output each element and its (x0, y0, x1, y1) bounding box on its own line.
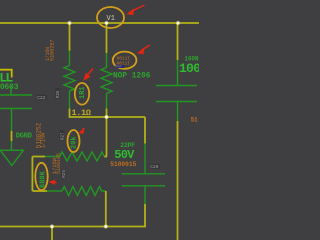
resistor R26 1.1ohm zigzag (64, 66, 75, 91)
svg-text:1R1: 1R1 (79, 86, 87, 99)
resistor R27 20k horizontal: left lead (32, 156, 45, 158)
capacitor C22 bottom plate (0, 108, 32, 110)
wire to ground (11, 109, 13, 132)
capacitor C20 stem from mid wire (144, 117, 146, 144)
wire (177, 102, 179, 122)
svg-text:C22: C22 (37, 95, 45, 101)
wire (106, 94, 108, 109)
pin stub from LL part (10, 86, 12, 95)
junction at top wire right (176, 21, 180, 25)
wire (144, 204, 146, 227)
capacitor C21 bottom plate (156, 101, 197, 103)
designator C22 gray (37, 95, 47, 100)
capacitor C21 top plate (156, 85, 197, 87)
wire stub below bottom wire (51, 227, 53, 240)
annotation arrow 1R1 (83, 69, 93, 81)
resistor R25 zigzag (62, 187, 102, 196)
designator R26 vertical gray (56, 88, 62, 99)
wire (177, 60, 179, 86)
wire vertical below junction (106, 117, 108, 157)
svg-text:DGND: DGND (16, 132, 32, 140)
wire vertical down to bottom (105, 191, 107, 227)
svg-text:NOP 1206: NOP 1206 (113, 72, 151, 80)
wire (144, 144, 146, 174)
capacitor C20 top plate (122, 173, 166, 175)
designator R25 vertical gray (61, 170, 67, 179)
junction at top wire middle (104, 21, 108, 25)
svg-text:NOP: NOP (116, 66, 122, 70)
svg-text:20k: 20k (71, 136, 79, 149)
wire (144, 186, 146, 204)
tiny blue selection box under NOP ellipse (116, 65, 125, 68)
junction at top wire left (67, 21, 71, 25)
svg-text:R27: R27 (61, 132, 65, 140)
annotation ellipse 20k (68, 130, 80, 152)
junction at bottom wire left (50, 224, 54, 228)
LL part yellow body outline corner (0, 70, 12, 78)
junction at bottom wire right (104, 224, 108, 228)
svg-text:680K: 680K (40, 170, 48, 188)
capacitor C22 top plate (0, 94, 32, 96)
wire vertical left connector (31, 157, 33, 192)
annotation ellipse V1 (97, 7, 124, 28)
svg-text:R26: R26 (57, 90, 61, 98)
svg-text:V1: V1 (107, 15, 115, 23)
annotation ellipse 680K (35, 163, 47, 190)
svg-text:R25: R25 (63, 170, 67, 178)
svg-text:1.1Ω: 1.1Ω (72, 108, 91, 118)
wire (70, 109, 146, 118)
resistor NOP_1206 zigzag (101, 68, 112, 94)
svg-text:50V: 50V (114, 148, 135, 162)
wire vertical drop middle (to NOP resistor) (106, 23, 108, 53)
ground DGND triangle (0, 150, 23, 165)
wire vertical drop left (to R26) (69, 23, 71, 51)
annotation arrow 680K (48, 180, 56, 185)
annotation ellipse NOP (113, 52, 137, 69)
svg-text:0603: 0603 (0, 83, 19, 92)
wire (106, 109, 108, 118)
resistor R25 680K horizontal: left lead (32, 190, 47, 192)
capacitor C20 bottom plate (122, 185, 166, 187)
annotation arrow 20k (78, 128, 84, 134)
annotation arrow NOP (137, 45, 150, 54)
svg-text:1/16W: 1/16W (51, 157, 58, 174)
svg-text:100: 100 (179, 61, 199, 76)
wire (102, 190, 106, 192)
annotation ellipse 1R1 (75, 83, 89, 105)
junction at mid wire (104, 115, 108, 119)
annotation arrow V1 (126, 5, 144, 15)
designator R27 vertical gray (60, 130, 66, 141)
svg-text:1/16W: 1/16W (40, 132, 47, 148)
wire (104, 156, 107, 158)
svg-text:C20: C20 (150, 164, 158, 170)
wire (69, 51, 71, 66)
svg-text:5100015: 5100015 (110, 161, 136, 168)
wire vertical drop right (to C21) (177, 23, 179, 60)
designator C20 gray (150, 164, 160, 169)
wire (106, 53, 108, 68)
wire (69, 91, 71, 109)
svg-text:1/16W: 1/16W (44, 46, 51, 61)
svg-text:51: 51 (191, 116, 198, 123)
resistor R27 zigzag (60, 152, 105, 161)
wire top horizontal net (0, 22, 199, 24)
wire bottom horizontal (0, 226, 146, 228)
wire vertical right long (177, 121, 179, 240)
